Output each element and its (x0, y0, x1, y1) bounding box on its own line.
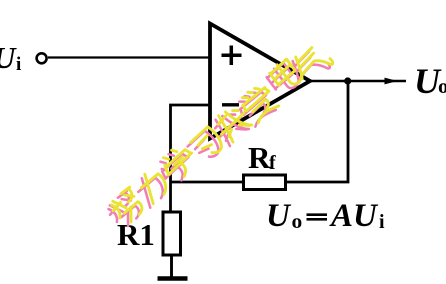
svg-text:i: i (16, 54, 21, 75)
watermark pink layer (105, 45, 331, 231)
wire node to Rf (171, 181, 244, 184)
svg-text:f: f (269, 152, 276, 174)
svg-text:AU: AU (329, 198, 379, 234)
wire input to op-amp + (48, 56, 210, 58)
svg-text:o: o (292, 209, 303, 233)
wire Rf to output node (286, 81, 349, 182)
svg-text:U: U (0, 40, 17, 75)
resistor Rf (244, 175, 286, 190)
ground (158, 276, 188, 281)
svg-text:R1: R1 (117, 217, 155, 252)
wire minus input (171, 105, 211, 212)
svg-text:o: o (438, 74, 446, 98)
watermark yellow layer (108, 41, 334, 227)
resistor R1 (163, 212, 181, 255)
op-amp minus input marker (222, 103, 239, 106)
op-amp U1 (210, 24, 310, 139)
junction node (344, 77, 351, 84)
wire R1 to ground (170, 255, 173, 277)
op-amp plus input marker (222, 46, 242, 66)
svg-text:R: R (248, 140, 271, 175)
svg-text:U: U (266, 198, 292, 234)
input terminal circle (37, 53, 47, 63)
arrowhead on output wire (385, 78, 398, 85)
wire op-amp output (310, 80, 406, 83)
svg-text:i: i (379, 211, 385, 233)
